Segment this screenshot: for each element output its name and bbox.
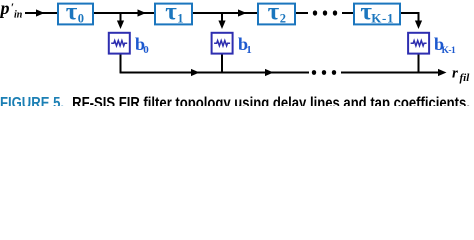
svg-text:fil: fil: [460, 72, 471, 84]
svg-text:1: 1: [177, 12, 183, 26]
svg-text:τ: τ: [66, 0, 78, 26]
svg-text:1: 1: [246, 44, 252, 56]
svg-text:r: r: [452, 66, 458, 82]
svg-text:p: p: [0, 0, 10, 18]
svg-text:0: 0: [78, 12, 84, 26]
svg-text:τ: τ: [268, 0, 280, 26]
svg-text:K-1: K-1: [371, 11, 394, 26]
svg-text:2: 2: [280, 12, 286, 26]
svg-text:0: 0: [143, 44, 149, 56]
svg-text:τ: τ: [165, 0, 177, 26]
svg-text:in: in: [14, 9, 23, 20]
svg-text:K-1: K-1: [442, 46, 457, 56]
